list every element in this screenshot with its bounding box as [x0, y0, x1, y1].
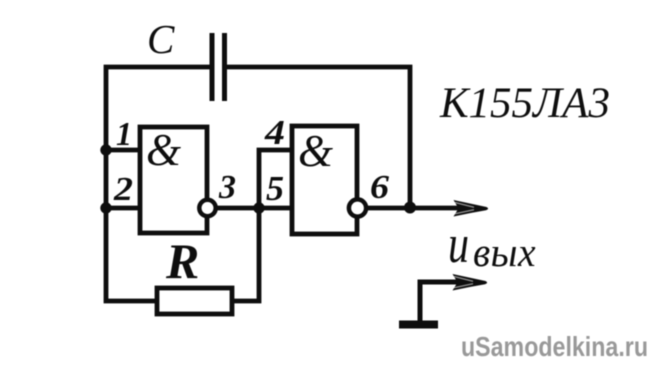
- wire top right from capacitor to corner and down: [227, 67, 410, 206]
- wire pin 6 output: [364, 206, 464, 211]
- capacitor C left plate: [210, 33, 215, 101]
- inverter bubble U1.2: [349, 199, 366, 216]
- ground arrow head: [453, 274, 488, 291]
- wire pin 1: [106, 148, 140, 153]
- junction node pin3/R: [253, 202, 264, 213]
- svg-text:&: &: [146, 125, 181, 175]
- ground stem and arm: [420, 282, 462, 325]
- svg-text:вых: вых: [473, 229, 536, 275]
- NAND gate U1.1 body: [140, 127, 207, 233]
- svg-text:&: &: [298, 126, 333, 176]
- svg-text:6: 6: [370, 169, 389, 206]
- junction node pin1/rail: [100, 144, 111, 155]
- svg-text:C: C: [147, 16, 175, 62]
- output arrow head: [454, 200, 489, 217]
- wire: top-left feedback run (C left plate, left rail, to R left lead): [106, 67, 211, 301]
- wire pin 2: [106, 206, 140, 211]
- capacitor C right plate: [222, 33, 227, 101]
- svg-text:2: 2: [113, 171, 133, 208]
- inverter bubble U1.1: [199, 200, 215, 216]
- svg-text:uSamodelkina.ru: uSamodelkina.ru: [461, 331, 648, 362]
- svg-text:3: 3: [218, 169, 236, 206]
- svg-text:u: u: [448, 214, 469, 274]
- wire resistor right + vertical node branch + pin 4 jog: [232, 150, 292, 301]
- wire pin3 to pin5: [214, 206, 292, 211]
- resistor R body: [157, 288, 232, 314]
- svg-text:4: 4: [264, 113, 285, 152]
- junction node pin2/rail: [100, 202, 111, 213]
- ground bar: [399, 321, 438, 329]
- junction node pin6/C: [404, 202, 416, 214]
- NAND gate U1.2 body: [292, 126, 357, 234]
- svg-text:К155ЛА3: К155ЛА3: [439, 80, 610, 127]
- svg-text:5: 5: [266, 169, 284, 208]
- svg-text:R: R: [165, 233, 199, 289]
- svg-text:1: 1: [116, 116, 132, 153]
